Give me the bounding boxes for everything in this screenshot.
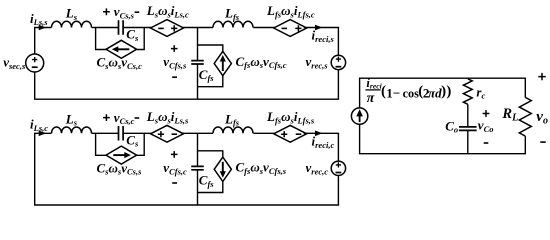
capacitor C_s xyxy=(119,126,124,141)
wire: L_fs to diamond xyxy=(253,132,276,134)
wire: left branch lower (v_sec,s to bottom rail) xyxy=(34,72,36,99)
wire: C_fs branch upper xyxy=(197,133,199,166)
label + v_Cfs,c - xyxy=(171,151,178,158)
svg-text:): ) xyxy=(441,83,446,99)
svg-text:cos: cos xyxy=(403,86,420,100)
current arrow i_Ls,s xyxy=(39,25,47,31)
wire: C_fs parallel loop bottom xyxy=(198,75,223,87)
wire: C_fs parallel loop top xyxy=(198,45,223,52)
wire: r_c to C_o xyxy=(467,104,469,127)
wire: bottom rail xyxy=(34,204,339,206)
wire: top rail, corner to L_s xyxy=(34,132,52,134)
dependent source C_s ω_s v_Cs,s (diamond, arrow right) xyxy=(106,146,137,164)
dependent source L_fs ω_s i_Lfs,s (diamond) xyxy=(274,125,307,142)
wire: C_fs branch lower xyxy=(197,170,199,205)
wire: C_o to bottom rail xyxy=(467,130,469,153)
capacitor C_fs xyxy=(191,166,204,169)
wire: top rail through C_s (left of plates) xyxy=(92,132,119,134)
wire: top rail, corner to L_s xyxy=(34,27,52,29)
wire: output box right branch lower xyxy=(524,136,526,154)
wire: C_fs parallel loop top xyxy=(198,151,223,158)
inductor L_fs xyxy=(213,21,253,27)
wire: C_s parallel loop right side xyxy=(137,28,145,50)
wire: right branch upper xyxy=(337,133,339,161)
dependent source L_s ω_s i_Ls,s (diamond) xyxy=(151,125,184,142)
wire: left branch upper (top rail to v_sec,s) xyxy=(34,28,36,55)
voltage source v_rec,s xyxy=(331,55,345,69)
wire: C_fs branch upper xyxy=(197,28,199,61)
wire: top rail, diamond to right corner xyxy=(304,27,339,29)
label + v_o - xyxy=(538,73,545,80)
dependent source C_fs ω_s v_Cfs,s (diamond, arrow down) xyxy=(214,157,231,181)
wire: C_s parallel loop left side xyxy=(96,133,106,155)
svg-text:π: π xyxy=(367,91,375,106)
wire: C_fs branch lower xyxy=(197,64,199,99)
wire: left branch (short circuit) xyxy=(34,133,36,205)
inductor L_s xyxy=(52,127,92,133)
svg-text:πd: πd xyxy=(428,85,442,100)
wire: top rail through C_s (right of plates) xyxy=(123,27,152,29)
voltage source v_sec,s xyxy=(26,54,44,72)
wire: bottom rail xyxy=(34,98,339,100)
wire: right branch upper xyxy=(337,28,339,56)
current arrow i_reci,s xyxy=(315,25,323,31)
wire: output box left branch lower xyxy=(359,124,361,154)
dependent source C_fs ω_s v_Cfs,c (diamond, arrow up) xyxy=(214,51,231,75)
wire: top rail, diamond to L_fs (through C_fs node) xyxy=(182,27,214,29)
wire: right branch lower xyxy=(337,70,339,100)
wire: top rail, diamond to right corner xyxy=(304,132,339,134)
dependent source L_s ω_s i_Ls,c (diamond) xyxy=(151,20,184,37)
wire: output box bottom rail xyxy=(359,153,526,155)
wire: C_fs parallel loop bottom xyxy=(198,181,223,193)
wire: output box left branch upper xyxy=(359,78,361,108)
current source (i_reci/pi)(1-cos(2pi d)) xyxy=(351,108,367,124)
wire: C_s parallel loop right side xyxy=(137,133,145,155)
svg-text:(: ( xyxy=(381,83,386,99)
dependent source C_s ω_s v_Cs,c (diamond, arrow left) xyxy=(106,40,137,58)
wire: top rail through C_s (right of plates) xyxy=(123,132,152,134)
label + v_Cs,c - xyxy=(103,114,110,121)
capacitor C_s xyxy=(119,20,124,35)
current arrow i_reci,c xyxy=(315,131,323,137)
svg-text:): ) xyxy=(446,83,451,99)
current arrow i_Ls,c xyxy=(39,131,47,137)
wire: output box right branch upper xyxy=(524,78,526,97)
inductor L_fs xyxy=(213,127,253,133)
voltage source v_rec,c xyxy=(331,161,345,175)
wire: right branch lower xyxy=(337,176,339,206)
wire: L_fs to diamond xyxy=(253,27,276,29)
dependent source L_fs ω_s i_Lfs,c (diamond) xyxy=(274,20,307,37)
resistor R_L xyxy=(519,97,531,136)
wire: output box top rail xyxy=(359,77,526,79)
svg-text:−: − xyxy=(393,85,400,100)
label + v_Cfs,s - xyxy=(171,45,178,52)
wire: top rail, diamond to L_fs (through C_fs node) xyxy=(182,132,214,134)
wire: C_s parallel loop left side xyxy=(96,28,106,50)
label + v_Cs,s - xyxy=(103,8,110,15)
resistor r_c xyxy=(463,79,472,105)
wire: top rail through C_s (left of plates) xyxy=(92,27,119,29)
capacitor C_o xyxy=(459,127,477,131)
inductor L_s xyxy=(52,21,92,27)
capacitor C_fs xyxy=(191,61,204,64)
label + v_Co - xyxy=(483,110,490,117)
svg-text:1: 1 xyxy=(386,85,393,100)
